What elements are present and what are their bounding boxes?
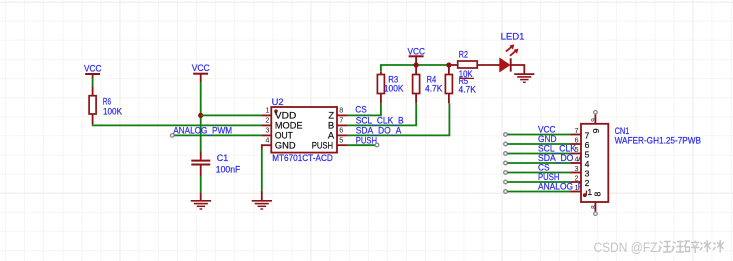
LED LED1 bbox=[500, 32, 525, 72]
svg-text:R6: R6 bbox=[103, 96, 111, 106]
wire LED1 to ground bbox=[511, 65, 525, 74]
wire U2 pin4 to ground bbox=[261, 144, 263, 149]
svg-text:9: 9 bbox=[591, 128, 601, 133]
svg-text:ANALOG_PWM: ANALOG_PWM bbox=[173, 126, 232, 136]
svg-text:6: 6 bbox=[585, 140, 590, 150]
node PUSH open end bbox=[375, 143, 379, 147]
node ANALOG_PWM open end bbox=[171, 134, 175, 138]
resistor R4 bbox=[413, 67, 444, 103]
svg-text:SCL_CLK_B: SCL_CLK_B bbox=[538, 144, 586, 154]
ground GND3 (LED) bbox=[514, 74, 534, 82]
resistor R6 bbox=[89, 87, 123, 125]
U2 pin 5 PUSH bbox=[312, 136, 347, 151]
wire U2 pin8 to R3 bbox=[347, 103, 381, 115]
resistor R2 bbox=[449, 49, 477, 79]
power VCC1 bbox=[84, 64, 102, 78]
冰 bbox=[700, 243, 703, 251]
svg-text:2: 2 bbox=[575, 174, 579, 183]
junction VCC/R4 bbox=[414, 62, 419, 67]
冰 bbox=[713, 243, 716, 251]
svg-text:6: 6 bbox=[575, 136, 579, 145]
svg-text:4.7K: 4.7K bbox=[425, 83, 443, 93]
CN1 pin 8 (bottom mount) bbox=[590, 192, 602, 216]
svg-text:VCC: VCC bbox=[538, 125, 556, 135]
connector CN1 body bbox=[581, 124, 701, 202]
CN1 pin 3 bbox=[571, 164, 590, 178]
svg-text:VCC: VCC bbox=[408, 46, 426, 56]
svg-text:4: 4 bbox=[265, 136, 269, 145]
svg-text:VCC: VCC bbox=[192, 63, 210, 73]
svg-text:PUSH: PUSH bbox=[356, 136, 377, 146]
junction VCC/R5/R2 bbox=[446, 62, 451, 67]
svg-text:4: 4 bbox=[585, 159, 590, 169]
svg-text:5: 5 bbox=[575, 145, 579, 154]
svg-text:7: 7 bbox=[339, 116, 343, 125]
CN1 pin 9 (top mount) bbox=[590, 111, 601, 134]
碎 bbox=[685, 241, 691, 252]
svg-text:PUSH: PUSH bbox=[538, 172, 559, 182]
wire R2 to LED1 bbox=[477, 64, 500, 66]
svg-text:6: 6 bbox=[339, 126, 343, 135]
svg-text:7: 7 bbox=[575, 126, 579, 135]
connector CN1 wires: row 5 CS bbox=[504, 171, 571, 175]
CN1 pin 7 bbox=[571, 126, 590, 140]
resistor R5 bbox=[445, 67, 476, 103]
svg-text:3: 3 bbox=[265, 126, 269, 135]
wire VCC2 down to junction and C1 bbox=[200, 82, 202, 152]
connector CN1 wires: row 7 ANALOG_PWM bbox=[504, 190, 571, 194]
svg-text:7: 7 bbox=[585, 130, 590, 140]
wire C1 to ground bbox=[200, 176, 202, 192]
svg-text:PUSH: PUSH bbox=[312, 140, 333, 151]
svg-text:LED1: LED1 bbox=[501, 32, 525, 42]
connector CN1 wires: row 1 VCC bbox=[504, 133, 571, 137]
watermark bbox=[594, 240, 724, 255]
capacitor C1 bbox=[191, 152, 240, 177]
svg-text:VCC: VCC bbox=[84, 64, 102, 74]
wire R6 to U2 pin2 bbox=[93, 124, 262, 125]
CN1 pin 5 bbox=[571, 145, 590, 159]
wire VCC rail bbox=[381, 65, 449, 72]
svg-text:1: 1 bbox=[265, 106, 269, 115]
connector CN1 wires: row 2 GND bbox=[504, 142, 571, 146]
svg-text:100nF: 100nF bbox=[216, 164, 241, 174]
U2 pin 1 VDD bbox=[261, 106, 296, 121]
svg-text:U2: U2 bbox=[272, 97, 284, 107]
wire U2 pin7 to R4 bbox=[347, 103, 416, 125]
svg-text:10K: 10K bbox=[459, 69, 473, 79]
svg-text:9: 9 bbox=[590, 118, 597, 122]
svg-text:8: 8 bbox=[339, 106, 343, 115]
svg-text:SDA_DO_A: SDA_DO_A bbox=[356, 125, 402, 135]
svg-text:8: 8 bbox=[590, 205, 597, 209]
svg-text:1: 1 bbox=[575, 183, 579, 192]
汪 bbox=[672, 242, 676, 253]
svg-text:8: 8 bbox=[593, 192, 603, 197]
wire U2 pin6 to R5 bbox=[347, 103, 449, 135]
svg-text:CS: CS bbox=[538, 163, 550, 173]
ground GND2 (U2) bbox=[252, 191, 272, 209]
resistor R3 bbox=[377, 72, 404, 104]
svg-text:3: 3 bbox=[585, 168, 590, 178]
svg-text:4: 4 bbox=[575, 155, 579, 164]
svg-text:C1: C1 bbox=[217, 153, 228, 163]
junction VCC2/VDD bbox=[198, 113, 203, 118]
op-amp U2 body bbox=[271, 97, 337, 163]
svg-text:2: 2 bbox=[265, 116, 269, 125]
svg-text:5: 5 bbox=[339, 136, 343, 145]
U2 pin 8 Z bbox=[328, 106, 347, 121]
svg-text:4.7K: 4.7K bbox=[459, 85, 477, 95]
wire U2 pin5 stub bbox=[347, 144, 375, 146]
svg-text:GND: GND bbox=[275, 140, 296, 151]
svg-text:100K: 100K bbox=[103, 107, 123, 117]
connector CN1 wires: row 3 SCL_CLK_B bbox=[504, 152, 571, 156]
CN1 pin 2 bbox=[571, 174, 590, 188]
U2 pin 2 MODE bbox=[261, 116, 302, 131]
CN1 pin 1 bbox=[571, 183, 593, 197]
svg-text:GND: GND bbox=[538, 134, 557, 144]
svg-text:CS: CS bbox=[355, 105, 367, 115]
CN1 pin 6 bbox=[571, 136, 590, 150]
svg-text:100K: 100K bbox=[384, 83, 404, 93]
U2 pin 3 OUT bbox=[261, 126, 293, 141]
svg-text:SCL_CLK_B: SCL_CLK_B bbox=[356, 116, 404, 126]
汪 bbox=[659, 242, 663, 253]
U2 pin 7 B bbox=[328, 116, 347, 131]
svg-text:MT6701CT-ACD: MT6701CT-ACD bbox=[272, 153, 333, 163]
U2 pin 6 A bbox=[328, 126, 347, 141]
CN1 pin 4 bbox=[571, 155, 590, 169]
power VCC3 bbox=[408, 46, 426, 65]
U2 pin 4 GND bbox=[261, 136, 295, 151]
svg-text:R2: R2 bbox=[459, 49, 468, 59]
svg-text:CSDN @FZ: CSDN @FZ bbox=[594, 240, 658, 255]
svg-text:WAFER-GH1.25-7PWB: WAFER-GH1.25-7PWB bbox=[615, 135, 701, 145]
wire junction to U2 pin1 bbox=[201, 114, 262, 116]
wire ANALOG_PWM to U2 pin3 bbox=[174, 134, 261, 136]
connector CN1 wires: row 6 PUSH bbox=[504, 180, 571, 184]
svg-text:3: 3 bbox=[575, 164, 579, 173]
connector CN1 wires: row 4 SDA_DO_A bbox=[504, 161, 571, 165]
ground GND1 (C1) bbox=[191, 192, 211, 209]
svg-text:5: 5 bbox=[585, 149, 590, 159]
power VCC2 bbox=[192, 63, 210, 82]
wire VCC1 to R6 bbox=[92, 78, 94, 87]
